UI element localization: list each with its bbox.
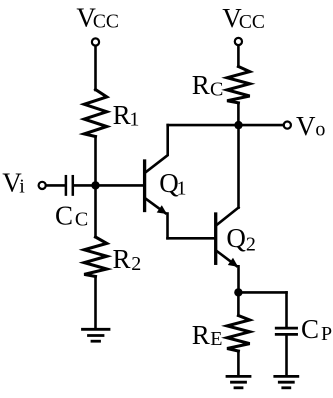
svg-text:V: V (296, 111, 316, 141)
resistor RC (227, 67, 250, 103)
wire Vi to CC (46, 184, 64, 187)
label Vi (2, 167, 25, 197)
terminal VCC right (235, 38, 242, 45)
svg-text:R: R (113, 100, 131, 130)
label VCC (right) (222, 3, 265, 33)
wire Q1 emitter to Q2 base (168, 237, 215, 240)
wire CP top (285, 292, 288, 327)
transistor Q2 emitter (217, 251, 237, 266)
node B junction dot (234, 121, 242, 129)
resistor RE (227, 316, 250, 352)
svg-text:E: E (210, 328, 222, 350)
svg-text:R: R (113, 244, 131, 274)
transistor Q2 base bar (214, 214, 217, 263)
wire VCC-left to R1 (94, 46, 97, 90)
transistor Q2 emitter arrowhead (228, 258, 238, 267)
svg-text:o: o (315, 119, 325, 141)
svg-text:Q: Q (226, 223, 246, 253)
wire CP to ground (285, 336, 288, 376)
terminal VCC left (92, 38, 99, 45)
wire node C to CP (238, 291, 286, 294)
node A junction dot (91, 181, 99, 189)
ground (under RE) (227, 376, 250, 387)
wire R2 to ground (94, 277, 97, 329)
svg-text:R: R (192, 70, 210, 100)
terminal Vo (284, 122, 291, 129)
label CP (301, 314, 332, 345)
svg-text:C: C (55, 200, 73, 230)
svg-text:P: P (321, 323, 332, 345)
svg-text:C: C (75, 209, 88, 231)
label Q2 (226, 223, 256, 255)
wire RE to ground (237, 351, 240, 375)
wire Q2 emitter to node C (237, 266, 240, 292)
wire CC to node A (74, 184, 95, 187)
wire node A to R2 (94, 185, 97, 237)
svg-text:CC: CC (93, 12, 119, 33)
svg-text:2: 2 (246, 233, 256, 255)
ground (under R2) (83, 329, 110, 341)
wire VCC-right to RC (237, 46, 240, 67)
svg-text:C: C (301, 314, 319, 344)
wire node A to Q1 base (96, 184, 144, 187)
transistor Q1 collector (146, 125, 168, 172)
svg-text:i: i (19, 175, 25, 197)
svg-text:1: 1 (177, 178, 187, 200)
wire R1 to node A (94, 137, 97, 186)
wire node B to Vo (239, 124, 284, 127)
transistor Q1 emitter (146, 199, 166, 213)
svg-text:CC: CC (239, 12, 265, 33)
capacitor CC (66, 176, 73, 194)
label RC (192, 70, 224, 100)
transistor Q2 collector (217, 208, 239, 225)
resistor R2 (84, 237, 107, 277)
svg-text:C: C (210, 78, 223, 100)
terminal Vi (39, 182, 46, 189)
wire Q1 emitter down (166, 214, 169, 239)
wire node C to RE (237, 292, 240, 315)
label R2 (113, 244, 142, 275)
label Q1 (159, 168, 186, 200)
ground (under CP) (275, 376, 298, 387)
transistor Q1 base bar (143, 161, 146, 211)
wire Q1 collector to top node (168, 124, 239, 127)
svg-text:R: R (192, 320, 210, 350)
label VCC (left) (76, 3, 119, 33)
wire RC to node B (237, 103, 240, 125)
label Vo (296, 111, 325, 141)
label CC (55, 200, 88, 230)
label RE (192, 320, 223, 350)
resistor R1 (84, 90, 107, 137)
wire node B to Q2 collector (237, 125, 240, 208)
transistor Q1 emitter arrowhead (157, 205, 167, 214)
node C junction dot (234, 288, 242, 296)
svg-text:2: 2 (131, 253, 141, 275)
svg-text:1: 1 (129, 109, 139, 131)
label R1 (113, 100, 140, 131)
capacitor CP (276, 328, 296, 334)
